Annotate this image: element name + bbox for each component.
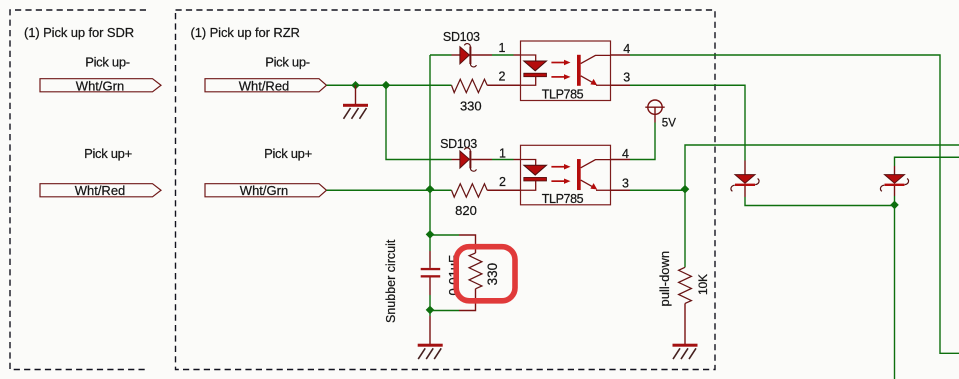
svg-text:4: 4: [622, 147, 629, 161]
connector Wht/Grn (RZR Pick up+): [205, 183, 327, 198]
svg-text:1: 1: [499, 41, 506, 55]
svg-text:10K: 10K: [696, 274, 710, 295]
pin number 4 (U1): [623, 42, 630, 56]
connector Wht/Red (SDR Pick up+): [40, 183, 161, 198]
wire D3 anode to D4 anode: [745, 197, 895, 206]
junction dot PICKUP+: [426, 185, 435, 194]
svg-text:4: 4: [623, 42, 630, 56]
ground GND2 (pull-down): [673, 344, 698, 359]
label Pick up+ (RZR): [264, 146, 312, 161]
junction dot snubber top: [426, 230, 435, 239]
highlight box around R3: [456, 247, 515, 301]
title SDR panel: [24, 25, 134, 40]
svg-text:Pick up-: Pick up-: [85, 55, 130, 70]
ground GND1: [343, 85, 368, 119]
connector Wht/Red (RZR Pick up-): [205, 79, 327, 94]
label SD103 (D1): [443, 30, 480, 44]
zener diode D3: [731, 161, 759, 198]
junction dot PICKUP- at ground tap: [351, 81, 360, 90]
svg-text:pull-down: pull-down: [657, 251, 672, 307]
svg-text:Snubber circuit: Snubber circuit: [384, 239, 398, 323]
svg-text:SD103: SD103: [443, 30, 480, 44]
wire PICKUP+ to SD103 D1 anode: [430, 54, 452, 56]
svg-text:Wht/Red: Wht/Red: [239, 79, 290, 94]
value label 330 (R3): [485, 263, 500, 286]
label SD103 (D2): [440, 137, 477, 151]
pin number 4 (U2): [622, 147, 629, 161]
op-amp U2 optocoupler TLP785: [521, 145, 611, 206]
resistor R4 10K pull-down: [679, 267, 692, 344]
pin number 3 (U2): [622, 177, 629, 191]
pin number 1 (U1): [499, 41, 506, 55]
label Pick up+ (SDR): [84, 146, 132, 161]
pin number 3 (U1): [623, 71, 630, 85]
svg-text:Wht/Red: Wht/Red: [75, 183, 126, 198]
connector Wht/Grn (SDR Pick up-): [40, 79, 161, 94]
svg-text:TLP785: TLP785: [542, 88, 584, 102]
svg-text:3: 3: [623, 71, 630, 85]
wire D4 cathode to right edge: [895, 157, 959, 166]
wire PICKUP+ vertical trunk x=430: [429, 55, 431, 235]
junction dot PICKUP- branch to row2: [382, 81, 391, 90]
value label 820 (R2): [455, 203, 477, 218]
svg-text:TLP785: TLP785: [542, 192, 584, 206]
label Pick up- (SDR): [85, 55, 130, 70]
wire U2 pin3 to junction: [611, 189, 686, 191]
svg-text:1: 1: [499, 147, 506, 161]
wire D1 cathode to U1 pin1: [492, 54, 521, 56]
diode D1 SD103: [452, 44, 493, 67]
supply 5V symbol: [645, 100, 664, 123]
zener diode D4: [880, 166, 908, 206]
resistor R1 330: [452, 79, 521, 92]
svg-text:Pick up+: Pick up+: [84, 146, 132, 161]
resistor R3 330 (snubber): [430, 235, 482, 311]
panel frame RZR (dashed): [176, 10, 716, 370]
svg-text:2: 2: [499, 70, 506, 84]
svg-text:(1) Pick up for SDR: (1) Pick up for SDR: [24, 25, 134, 40]
svg-text:330: 330: [460, 99, 482, 114]
svg-text:(1) Pick up for RZR: (1) Pick up for RZR: [191, 25, 300, 40]
wire 5V to U2 pin4: [611, 123, 656, 160]
panel frame SDR (dashed, open right side): [10, 10, 146, 370]
svg-text:5V: 5V: [662, 117, 676, 129]
value label 10K (R4): [696, 274, 710, 295]
value label 0.01uF (C1): [446, 255, 461, 296]
wire U1 pin3 to zener D3: [611, 85, 746, 160]
capacitor C1 0.01uF: [421, 235, 441, 311]
svg-text:3: 3: [622, 177, 629, 191]
svg-text:Pick up-: Pick up-: [265, 55, 310, 70]
junction dot snubber bottom: [426, 306, 435, 315]
junction dot U2 pin3 node: [681, 185, 690, 194]
diode D2 SD103: [452, 148, 493, 171]
svg-text:Wht/Grn: Wht/Grn: [240, 183, 288, 198]
svg-text:SD103: SD103: [440, 137, 477, 151]
value label 330 (R1): [460, 99, 482, 114]
svg-text:330: 330: [485, 263, 500, 286]
svg-text:2: 2: [499, 175, 506, 189]
wire pin3 node down to R4: [684, 190, 686, 267]
svg-text:Pick up+: Pick up+: [264, 146, 312, 161]
svg-text:Wht/Grn: Wht/Grn: [76, 79, 124, 94]
label Snubber circuit: [384, 239, 398, 323]
pin number 2 (U1): [499, 70, 506, 84]
wire anode node down to edge: [894, 206, 896, 379]
wire net PICKUP- row1 horizontal: [327, 84, 452, 86]
svg-text:820: 820: [455, 203, 477, 218]
op-amp U1 optocoupler TLP785: [521, 41, 611, 102]
resistor R2 820: [452, 184, 521, 197]
pin number 2 (U2): [499, 175, 506, 189]
label pull-down (R4): [657, 251, 672, 307]
junction dot anode node: [890, 201, 899, 210]
wire PICKUP+ to R2: [327, 189, 452, 191]
wire pin3 node to right edge: [685, 145, 959, 190]
label 5V: [662, 117, 676, 129]
ground GND3 (snubber): [418, 311, 443, 360]
label Pick up- (RZR): [265, 55, 310, 70]
wire PICKUP- branch down to SD103 row2: [386, 85, 452, 159]
wire D2 cathode to U2 pin1: [492, 159, 521, 161]
title RZR panel: [191, 25, 300, 40]
wire U1 pin4 to right rail: [611, 55, 959, 353]
pin number 1 (U2): [499, 147, 506, 161]
